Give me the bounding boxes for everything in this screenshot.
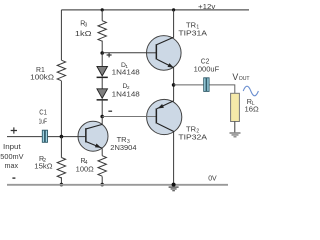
label - (diode chain bottom polarity) xyxy=(108,110,112,112)
transistor TR2 xyxy=(146,99,181,134)
wire RL bottom lead xyxy=(234,122,236,133)
capacitor C2 xyxy=(204,78,209,92)
svg-text:1uF: 1uF xyxy=(39,116,48,125)
ground under RL xyxy=(230,132,241,137)
wire R2 top lead xyxy=(60,137,62,158)
node R3/D1/TR1-base junction xyxy=(100,51,104,55)
svg-text:OUT: OUT xyxy=(239,76,251,82)
resistor R2 xyxy=(57,158,65,178)
sine wave symbol xyxy=(243,86,258,96)
label + (diode chain top polarity) xyxy=(107,53,112,58)
svg-text:1N4148: 1N4148 xyxy=(112,67,140,76)
wire TR2 collector to ground rail xyxy=(173,132,175,185)
wire R3 top lead xyxy=(101,10,103,21)
svg-text:C1: C1 xyxy=(39,107,47,116)
wire +12V top rail xyxy=(61,9,249,11)
node R4 / 0V rail xyxy=(100,183,104,187)
node R2 / 0V rail xyxy=(60,183,64,187)
resistor R4 xyxy=(98,156,106,176)
node D2/TR3-collector/TR2-base junction xyxy=(100,115,104,119)
wire input to C1 xyxy=(7,136,42,138)
svg-text:+12v: +12v xyxy=(198,2,216,11)
svg-text:15kΩ: 15kΩ xyxy=(34,162,53,171)
wire TR3 emitter down to R4 xyxy=(101,148,103,155)
wire C1 to TR3 base xyxy=(48,136,78,138)
wire TR1 collector vertical xyxy=(173,10,175,38)
node TR2 collector / 0V rail xyxy=(172,183,176,187)
wire C2 left lead xyxy=(174,84,204,86)
wire R3 bottom lead to node xyxy=(101,41,103,53)
wire D2 cathode to lower node xyxy=(101,101,103,117)
node C2 junction xyxy=(172,83,176,87)
resistor RL (box) xyxy=(231,93,240,121)
svg-text:16Ω: 16Ω xyxy=(245,105,260,114)
capacitor C1 xyxy=(42,130,47,142)
svg-text:1000uF: 1000uF xyxy=(194,64,220,73)
wire C2 right lead to Vout corner xyxy=(209,85,234,93)
wire D1 cathode to D2 anode xyxy=(101,78,103,89)
svg-text:max: max xyxy=(5,161,19,170)
ground main xyxy=(169,186,179,191)
wire 0V rail xyxy=(7,184,228,186)
wire TR2 base wire xyxy=(102,116,156,118)
svg-text:1kΩ: 1kΩ xyxy=(75,29,93,38)
diode D2 xyxy=(97,89,108,101)
svg-text:500mV: 500mV xyxy=(0,152,23,161)
wire R2 bottom lead xyxy=(60,177,62,184)
svg-text:100Ω: 100Ω xyxy=(76,164,95,173)
svg-text:TIP32A: TIP32A xyxy=(178,132,207,141)
diode D1 xyxy=(97,66,108,78)
wire TR1 emitter to C2 node to TR2 emitter xyxy=(173,68,175,101)
node top rail / R3 junction xyxy=(101,8,104,11)
svg-text:V: V xyxy=(232,72,238,82)
svg-text:Input: Input xyxy=(3,142,21,151)
node C1/R1/R2/TR3 base junction xyxy=(60,135,64,139)
svg-text:100kΩ: 100kΩ xyxy=(30,72,55,81)
label + (input) xyxy=(11,127,17,133)
wire TR1 base wire xyxy=(102,52,156,54)
wire left column lower (R1 to input junction) xyxy=(60,81,62,137)
svg-text:1N4148: 1N4148 xyxy=(112,89,140,98)
label - (input) xyxy=(12,177,15,179)
svg-text:0V: 0V xyxy=(208,174,217,183)
svg-text:2N3904: 2N3904 xyxy=(110,143,136,152)
wire TR3 collector up to node xyxy=(101,117,103,125)
transistor TR3 xyxy=(78,121,108,151)
wire left column upper (top rail to R1) xyxy=(60,10,62,60)
transistor TR1 xyxy=(146,36,181,71)
node top rail / TR1 collector junction xyxy=(172,8,175,11)
wire R4 bottom lead xyxy=(101,176,103,184)
svg-text:TIP31A: TIP31A xyxy=(178,29,207,38)
resistor R1 xyxy=(57,60,65,81)
wire node to D1 anode xyxy=(101,53,103,66)
svg-text:3: 3 xyxy=(85,22,88,28)
resistor R3 xyxy=(98,21,106,42)
